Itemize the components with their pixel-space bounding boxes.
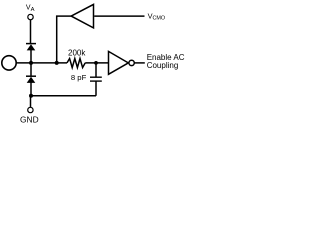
- svg-text:Coupling: Coupling: [147, 61, 179, 70]
- svg-text:200k: 200k: [68, 48, 86, 57]
- wire buffer output down to node A: [56, 16, 58, 63]
- diode D2 (clamp to GND): [26, 63, 36, 96]
- node B junction: [94, 61, 98, 65]
- inverter bubble: [129, 60, 134, 65]
- node A junction: [29, 61, 33, 65]
- wire VCMO: [94, 15, 144, 17]
- op-amp buffer U1 (VCMO driver): [71, 4, 93, 28]
- ground junction: [29, 94, 33, 98]
- diode D1 (clamp to VA): [26, 44, 36, 63]
- wire VA to D1: [30, 20, 32, 44]
- junction buffer output: [55, 61, 59, 65]
- svg-text:VA: VA: [26, 5, 35, 13]
- wire to GND terminal: [30, 96, 32, 108]
- wire resistor to inverter: [85, 62, 108, 64]
- wire buffer apex: [56, 15, 71, 17]
- wire enable: [135, 62, 145, 64]
- terminal VA: [28, 14, 33, 19]
- resistor R1: [67, 59, 85, 68]
- svg-text:GND: GND: [20, 115, 39, 125]
- wire node B to capacitor: [95, 63, 97, 77]
- capacitor C1 8pF: [90, 77, 102, 81]
- input terminal: [2, 56, 16, 70]
- terminal GND: [28, 107, 33, 112]
- svg-text:8 pF: 8 pF: [71, 73, 87, 82]
- ground return wire: [31, 95, 96, 97]
- wire capacitor to ground rail: [95, 81, 97, 96]
- wire input to resistor: [16, 62, 67, 64]
- inverter U2 (AC coupling enable): [109, 51, 129, 74]
